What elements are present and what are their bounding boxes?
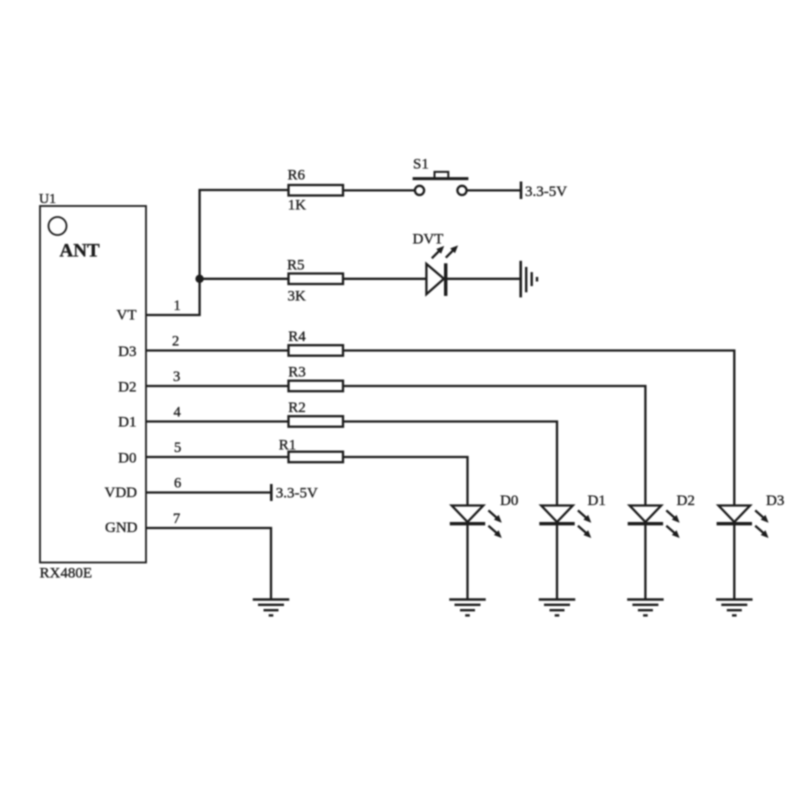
svg-text:D0: D0 <box>118 451 136 467</box>
svg-text:U1: U1 <box>39 192 56 207</box>
svg-text:1: 1 <box>174 298 181 314</box>
svg-text:3.3-5V: 3.3-5V <box>525 184 567 200</box>
svg-text:5: 5 <box>174 440 181 456</box>
svg-text:VT: VT <box>117 308 137 324</box>
svg-text:D1: D1 <box>588 493 606 509</box>
svg-text:GND: GND <box>105 520 138 536</box>
svg-text:R2: R2 <box>288 400 306 416</box>
svg-text:DVT: DVT <box>413 232 444 248</box>
svg-text:R6: R6 <box>288 168 306 184</box>
svg-text:R5: R5 <box>287 257 305 273</box>
svg-text:D2: D2 <box>118 380 136 396</box>
svg-text:D1: D1 <box>118 415 136 431</box>
svg-text:6: 6 <box>174 476 181 492</box>
svg-text:RX480E: RX480E <box>40 566 93 582</box>
svg-text:4: 4 <box>174 405 182 421</box>
svg-text:R1: R1 <box>279 437 297 453</box>
svg-text:S1: S1 <box>413 157 429 173</box>
svg-text:7: 7 <box>173 511 180 527</box>
svg-text:3: 3 <box>173 369 180 385</box>
svg-text:3.3-5V: 3.3-5V <box>276 486 318 502</box>
svg-text:D3: D3 <box>118 344 136 360</box>
svg-text:D3: D3 <box>766 493 784 509</box>
svg-text:R3: R3 <box>288 365 306 381</box>
svg-text:ANT: ANT <box>60 241 100 262</box>
svg-text:3K: 3K <box>288 289 307 305</box>
svg-text:1K: 1K <box>288 198 307 214</box>
svg-text:2: 2 <box>172 334 179 350</box>
svg-text:R4: R4 <box>288 329 306 345</box>
svg-text:D2: D2 <box>677 493 695 509</box>
svg-text:D0: D0 <box>500 493 518 509</box>
svg-text:VDD: VDD <box>105 485 138 501</box>
